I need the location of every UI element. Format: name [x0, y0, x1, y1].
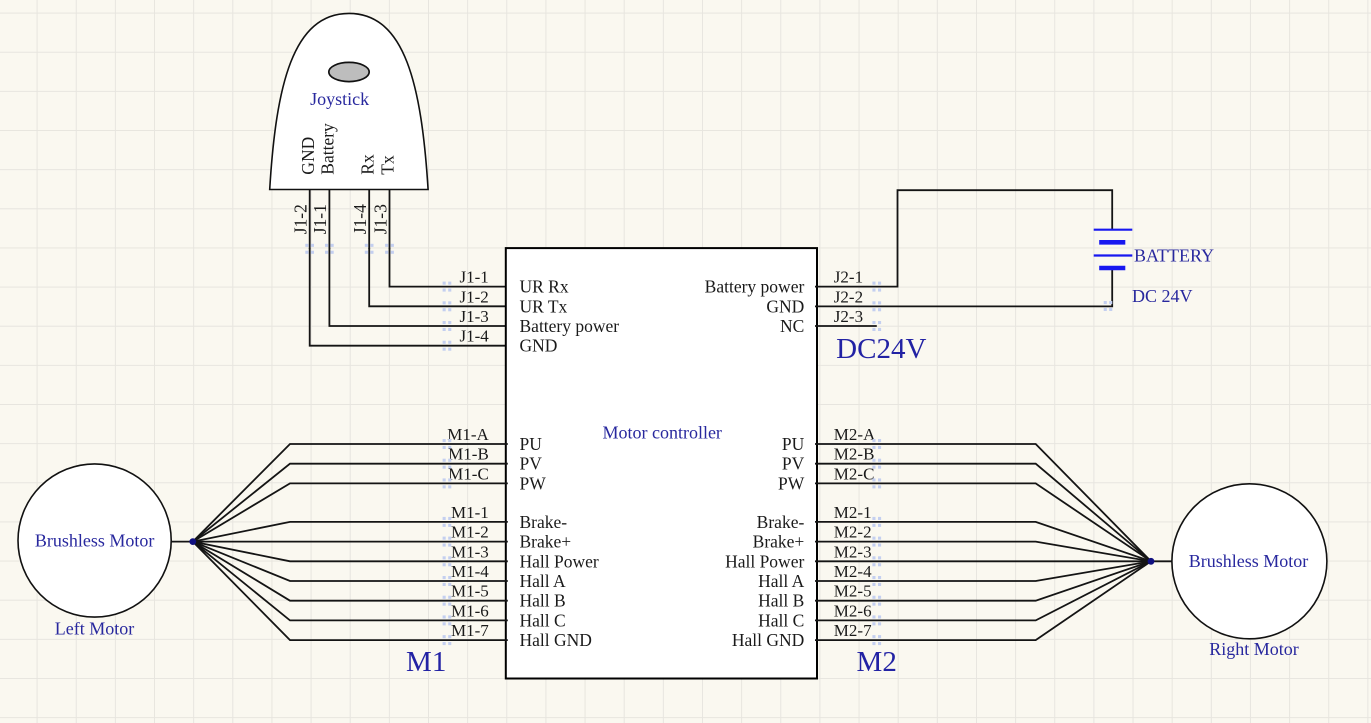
svg-text:Hall A: Hall A [758, 571, 805, 591]
wire net J2-2 GND to battery - [815, 268, 1112, 306]
wire left motor stub [171, 541, 192, 543]
wire net M1-1 (left fan) [193, 522, 508, 542]
junction marker J2-1 [872, 282, 881, 292]
junction marker M1-3 [443, 556, 452, 566]
svg-text:M1-A: M1-A [447, 425, 489, 444]
svg-text:DC24V: DC24V [836, 333, 926, 365]
wire net J2-1 Battery power to battery + [815, 190, 1112, 286]
wire net M2-1 (right fan) [815, 522, 1151, 561]
junction marker J1-4 [443, 341, 452, 351]
svg-text:Brake-: Brake- [757, 512, 805, 532]
junction marker pin J1-1 [325, 244, 334, 254]
junction marker J1-2 [443, 301, 452, 311]
junction marker M2-5 [872, 596, 881, 606]
svg-text:Hall C: Hall C [758, 610, 804, 630]
pin J1-1 (Battery) of joystick [310, 123, 337, 249]
svg-text:PW: PW [520, 473, 547, 493]
junction marker M2-3 [872, 556, 881, 566]
svg-text:Brushless Motor: Brushless Motor [1189, 551, 1309, 571]
svg-text:J1-3: J1-3 [460, 307, 489, 326]
wire net M1-3 (left fan) [193, 542, 508, 562]
svg-text:M1-B: M1-B [448, 445, 489, 464]
svg-text:BATTERY: BATTERY [1134, 245, 1214, 265]
svg-text:Tx: Tx [378, 155, 398, 175]
wire net M2-4 (right fan) [815, 561, 1151, 581]
junction marker M2-A [872, 439, 881, 449]
svg-text:M1-1: M1-1 [451, 503, 489, 522]
svg-text:Right Motor: Right Motor [1209, 639, 1299, 659]
junction marker J1-1 [443, 282, 452, 292]
svg-text:PV: PV [520, 454, 543, 474]
junction marker M2-2 [872, 537, 881, 547]
svg-text:M1-4: M1-4 [451, 562, 489, 581]
svg-text:Brake+: Brake+ [520, 532, 572, 552]
junction marker M1-C [443, 478, 452, 488]
battery B1 plate 2 (- short) [1099, 240, 1125, 245]
svg-text:Motor controller: Motor controller [602, 423, 721, 443]
svg-text:PU: PU [520, 434, 543, 454]
svg-text:GND: GND [520, 336, 558, 356]
wire net M2-3 (right fan) [815, 560, 1151, 562]
svg-text:Hall Power: Hall Power [520, 551, 599, 571]
junction marker M1-6 [443, 615, 452, 625]
svg-text:J1-3: J1-3 [370, 204, 390, 234]
svg-text:M1-6: M1-6 [451, 601, 489, 620]
svg-text:Left Motor: Left Motor [55, 619, 134, 639]
wire net UR Rx / J1-1 [390, 248, 508, 287]
wire net M2-6 (right fan) [815, 561, 1151, 620]
svg-text:M2-4: M2-4 [834, 562, 872, 581]
svg-text:M1-2: M1-2 [451, 523, 489, 542]
svg-text:M1: M1 [406, 646, 446, 678]
svg-text:DC 24V: DC 24V [1132, 286, 1193, 306]
wire net M2-5 (right fan) [815, 561, 1151, 600]
wire net M2-7 (right fan) [815, 561, 1151, 640]
svg-text:Battery power: Battery power [705, 277, 805, 297]
wire net UR Tx / J1-2 [369, 248, 508, 306]
junction marker M2-B [872, 459, 881, 469]
wire net M2-2 (right fan) [815, 542, 1151, 562]
wire right motor stub [1151, 560, 1173, 562]
junction marker J2-3 [872, 321, 881, 331]
svg-text:Hall GND: Hall GND [520, 630, 592, 650]
junction marker M1-7 [443, 635, 452, 645]
junction marker M1-5 [443, 596, 452, 606]
junction marker M2-C [872, 478, 881, 488]
svg-text:J2-3: J2-3 [834, 307, 863, 326]
svg-text:M2: M2 [857, 646, 897, 678]
svg-text:M2-B: M2-B [834, 445, 875, 464]
svg-text:UR Tx: UR Tx [520, 296, 568, 316]
pin J1-2 (GND) of joystick [291, 137, 318, 249]
svg-text:Hall C: Hall C [520, 610, 566, 630]
svg-text:Battery power: Battery power [520, 316, 620, 336]
pin J1-4 (Rx) of joystick [350, 154, 377, 249]
motor controller U2 body [506, 248, 817, 678]
junction marker M1-2 [443, 537, 452, 547]
junction marker M1-1 [443, 517, 452, 527]
svg-text:J1-1: J1-1 [460, 268, 489, 287]
svg-text:Joystick: Joystick [310, 89, 369, 109]
svg-text:Hall B: Hall B [758, 591, 804, 611]
node left motor junction [189, 538, 196, 545]
svg-text:Hall B: Hall B [520, 591, 566, 611]
svg-text:J2-2: J2-2 [834, 287, 863, 306]
svg-text:J1-4: J1-4 [350, 204, 370, 234]
junction marker M1-B [443, 459, 452, 469]
svg-text:M2-6: M2-6 [834, 601, 872, 620]
wire net M1-7 (left fan) [193, 542, 508, 641]
svg-text:Brushless Motor: Brushless Motor [35, 530, 155, 550]
joystick knob [329, 62, 369, 81]
svg-text:M2-3: M2-3 [834, 542, 872, 561]
svg-text:GND: GND [766, 296, 804, 316]
svg-text:M2-C: M2-C [834, 464, 875, 483]
wire net Battery power / J1-3 [329, 248, 507, 326]
svg-text:M2-2: M2-2 [834, 523, 872, 542]
junction marker M2-4 [872, 576, 881, 586]
svg-text:UR Rx: UR Rx [520, 277, 569, 297]
junction marker pin J1-4 [365, 244, 374, 254]
svg-text:Brake+: Brake+ [753, 532, 805, 552]
junction marker J2-2 [872, 301, 881, 311]
wire net M1-A (left fan) [193, 444, 508, 542]
svg-text:Hall GND: Hall GND [732, 630, 804, 650]
svg-text:J2-1: J2-1 [834, 268, 863, 287]
svg-text:J1-4: J1-4 [460, 327, 490, 346]
svg-text:M2-7: M2-7 [834, 621, 872, 640]
junction marker pin J1-2 [305, 244, 314, 254]
junction marker M1-A [443, 439, 452, 449]
svg-text:Rx: Rx [357, 154, 377, 175]
junction marker battery gnd [1104, 301, 1113, 311]
wire net M2-B (right fan) [815, 464, 1151, 562]
wire net M1-C (left fan) [193, 483, 508, 541]
wire net M2-A (right fan) [815, 444, 1151, 561]
junction marker M2-7 [872, 635, 881, 645]
svg-text:NC: NC [780, 316, 804, 336]
wire net GND / J1-4 [310, 248, 508, 346]
wire net M1-2 (left fan) [193, 541, 508, 543]
svg-text:J1-2: J1-2 [460, 287, 489, 306]
svg-text:J1-2: J1-2 [291, 204, 311, 234]
wire net J2-3 NC stub [815, 325, 877, 327]
svg-text:M1-3: M1-3 [451, 542, 489, 561]
wire net M1-5 (left fan) [193, 542, 508, 601]
svg-text:Hall A: Hall A [520, 571, 567, 591]
svg-text:PW: PW [778, 473, 805, 493]
svg-text:Hall Power: Hall Power [725, 551, 804, 571]
svg-text:GND: GND [298, 137, 318, 175]
wire net M1-B (left fan) [193, 464, 508, 542]
pin J1-3 (Tx) of joystick [370, 155, 397, 249]
svg-text:M1-C: M1-C [448, 464, 489, 483]
svg-text:M2-5: M2-5 [834, 582, 872, 601]
svg-text:M1-7: M1-7 [451, 621, 489, 640]
left brushless motor M1 body [18, 464, 171, 617]
svg-text:M2-A: M2-A [834, 425, 876, 444]
wire net M1-6 (left fan) [193, 542, 508, 621]
wire net M1-4 (left fan) [193, 542, 508, 581]
junction marker M1-4 [443, 576, 452, 586]
battery B1 plate 4 (- short) [1099, 266, 1125, 271]
junction marker J1-3 [443, 321, 452, 331]
battery B1 plate 1 (+ long) [1094, 229, 1133, 231]
svg-text:PU: PU [782, 434, 805, 454]
wire net M2-C (right fan) [815, 483, 1151, 561]
svg-text:J1-1: J1-1 [310, 204, 330, 234]
junction marker M2-1 [872, 517, 881, 527]
right brushless motor M2 body [1172, 484, 1327, 639]
svg-text:Battery: Battery [318, 123, 338, 175]
joystick U1 body [270, 13, 428, 189]
node right motor junction [1148, 558, 1155, 565]
svg-text:Brake-: Brake- [520, 512, 568, 532]
svg-text:PV: PV [782, 454, 805, 474]
junction marker pin J1-3 [385, 244, 394, 254]
svg-text:M2-1: M2-1 [834, 503, 872, 522]
svg-text:M1-5: M1-5 [451, 582, 489, 601]
junction marker M2-6 [872, 615, 881, 625]
battery B1 plate 3 (+ long) [1094, 254, 1133, 256]
